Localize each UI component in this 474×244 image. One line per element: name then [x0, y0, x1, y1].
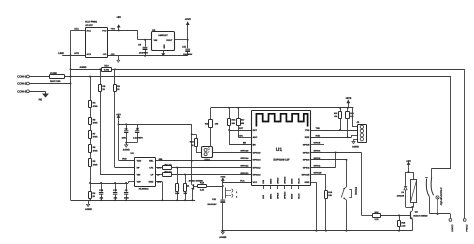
svg-text:GPIO9: GPIO9	[276, 192, 279, 199]
svg-text:AC-DC: AC-DC	[85, 24, 93, 27]
svg-text:GPIO0: GPIO0	[314, 157, 321, 160]
svg-text:CON-5: CON-5	[451, 225, 454, 233]
svg-text:GND: GND	[162, 44, 165, 49]
svg-text:10uF/16V: 10uF/16V	[207, 203, 217, 206]
svg-text:AGND: AGND	[352, 145, 359, 148]
svg-text:470k: 470k	[93, 105, 99, 108]
svg-text:GND: GND	[305, 181, 310, 184]
svg-text:PROG: PROG	[354, 187, 357, 195]
svg-text:-VO: -VO	[103, 53, 107, 56]
svg-text:MOSI: MOSI	[290, 193, 293, 199]
svg-text:0.001: 0.001	[104, 69, 110, 72]
svg-text:GPIO4: GPIO4	[314, 150, 321, 153]
svg-text:VDD: VDD	[122, 157, 127, 160]
svg-text:FUSE: FUSE	[50, 72, 57, 75]
svg-text:+5V: +5V	[116, 16, 121, 19]
svg-text:+3V3: +3V3	[185, 18, 192, 21]
svg-text:GPIO15: GPIO15	[301, 173, 310, 176]
svg-text:U1: U1	[276, 147, 283, 153]
svg-text:SCLK: SCLK	[297, 178, 300, 184]
svg-text:-VO: -VO	[111, 53, 115, 56]
svg-text:470k: 470k	[93, 122, 99, 125]
svg-text:GPIO14: GPIO14	[253, 159, 262, 162]
svg-text:AGND: AGND	[79, 66, 86, 69]
svg-text:GPIO9: GPIO9	[276, 177, 279, 184]
svg-text:100n: 100n	[122, 137, 127, 140]
svg-text:GND: GND	[149, 181, 154, 184]
svg-text:470k: 470k	[93, 149, 99, 152]
svg-text:HLW8012: HLW8012	[139, 187, 150, 190]
svg-text:GPIO14: GPIO14	[240, 157, 249, 160]
svg-text:GPIO5: GPIO5	[303, 144, 310, 147]
svg-text:+3V3: +3V3	[345, 97, 352, 100]
svg-text:AC2: AC2	[87, 53, 92, 56]
svg-text:VIN: VIN	[137, 173, 141, 176]
svg-text:GPIO5: GPIO5	[314, 142, 321, 145]
svg-text:+5V: +5V	[116, 114, 121, 117]
svg-text:CON-3: CON-3	[17, 89, 26, 93]
svg-text:GPIO16: GPIO16	[253, 151, 262, 154]
svg-text:GPIO2: GPIO2	[303, 166, 310, 169]
svg-text:AC2: AC2	[74, 52, 79, 55]
svg-text:CON-2: CON-2	[17, 82, 26, 86]
svg-text:10uF/50V: 10uF/50V	[139, 52, 149, 55]
svg-text:2.2uF/50V: 2.2uF/50V	[133, 137, 143, 140]
svg-text:V2P: V2P	[137, 181, 142, 184]
svg-text:R10: R10	[104, 65, 109, 68]
svg-text:GPIO10: GPIO10	[283, 191, 286, 199]
svg-text:GPIO16: GPIO16	[240, 150, 249, 153]
svg-text:GPIO15: GPIO15	[314, 172, 323, 175]
svg-text:GPIO12: GPIO12	[240, 165, 249, 168]
svg-text:ESP8266-12F: ESP8266-12F	[273, 159, 290, 162]
svg-text:1N4148: 1N4148	[397, 194, 405, 197]
svg-text:PE: PE	[39, 99, 43, 102]
svg-text:R21: R21	[350, 112, 353, 115]
svg-text:MISO: MISO	[269, 178, 272, 184]
svg-text:VDD: VDD	[137, 160, 142, 163]
svg-text:LED2: LED2	[204, 158, 211, 161]
svg-text:+3V3: +3V3	[220, 175, 226, 178]
svg-text:+VO: +VO	[102, 30, 107, 33]
svg-text:VOUT: VOUT	[166, 39, 173, 42]
svg-text:AGND: AGND	[85, 208, 92, 211]
svg-text:SEL: SEL	[149, 160, 154, 163]
svg-text:+VO: +VO	[111, 27, 116, 30]
svg-text:GPIO0: GPIO0	[303, 159, 310, 162]
svg-text:BC817-40SMD: BC817-40SMD	[413, 215, 428, 218]
svg-text:R13 1k: R13 1k	[165, 171, 173, 174]
svg-text:AC1: AC1	[74, 27, 79, 30]
svg-text:VCC: VCC	[240, 179, 245, 182]
svg-text:ADC: ADC	[253, 136, 258, 139]
svg-text:SCLK: SCLK	[297, 193, 300, 199]
svg-text:MAX 10A: MAX 10A	[50, 80, 61, 83]
svg-text:TXD: TXD	[305, 129, 310, 132]
svg-text:GPIO12: GPIO12	[253, 166, 262, 169]
svg-text:R12 1k: R12 1k	[165, 164, 173, 167]
svg-text:CON-1: CON-1	[17, 75, 26, 79]
svg-text:R20: R20	[334, 112, 337, 115]
svg-text:AGND: AGND	[123, 148, 130, 151]
svg-text:100n: 100n	[124, 196, 129, 199]
svg-text:+5V: +5V	[406, 160, 411, 163]
svg-text:VIN: VIN	[154, 39, 158, 42]
svg-text:JQC-3F-DC5V-C: JQC-3F-DC5V-C	[440, 187, 443, 205]
svg-text:470k: 470k	[93, 163, 99, 166]
svg-text:RXD: RXD	[305, 136, 310, 139]
svg-text:GPIO13: GPIO13	[240, 172, 249, 175]
svg-text:470k: 470k	[93, 136, 99, 139]
svg-text:EN: EN	[253, 144, 256, 147]
svg-text:C11: C11	[182, 45, 187, 48]
svg-text:TXD: TXD	[316, 127, 321, 130]
svg-text:CON-4: CON-4	[465, 225, 468, 233]
svg-text:GPIO10: GPIO10	[283, 176, 286, 184]
svg-text:MISO: MISO	[269, 193, 272, 199]
svg-text:AC1: AC1	[87, 30, 92, 33]
svg-text:GPIO2: GPIO2	[314, 165, 321, 168]
svg-text:VCC: VCC	[253, 181, 258, 184]
svg-text:RST: RST	[239, 127, 244, 130]
svg-text:RXD: RXD	[316, 134, 321, 137]
svg-text:GND: GND	[157, 181, 162, 184]
svg-text:ADC: ADC	[238, 134, 243, 137]
svg-text:GPIO4: GPIO4	[303, 151, 310, 154]
svg-text:GPIO13: GPIO13	[253, 173, 262, 176]
svg-text:MOSI: MOSI	[290, 178, 293, 184]
svg-text:10uF/50V: 10uF/50V	[183, 53, 193, 56]
svg-text:AGND: AGND	[219, 236, 226, 239]
svg-text:AMS1117: AMS1117	[158, 34, 168, 37]
svg-text:EN: EN	[243, 142, 246, 145]
svg-text:SEL: SEL	[159, 158, 164, 161]
svg-text:RST: RST	[253, 129, 258, 132]
svg-text:LINE: LINE	[58, 52, 64, 55]
